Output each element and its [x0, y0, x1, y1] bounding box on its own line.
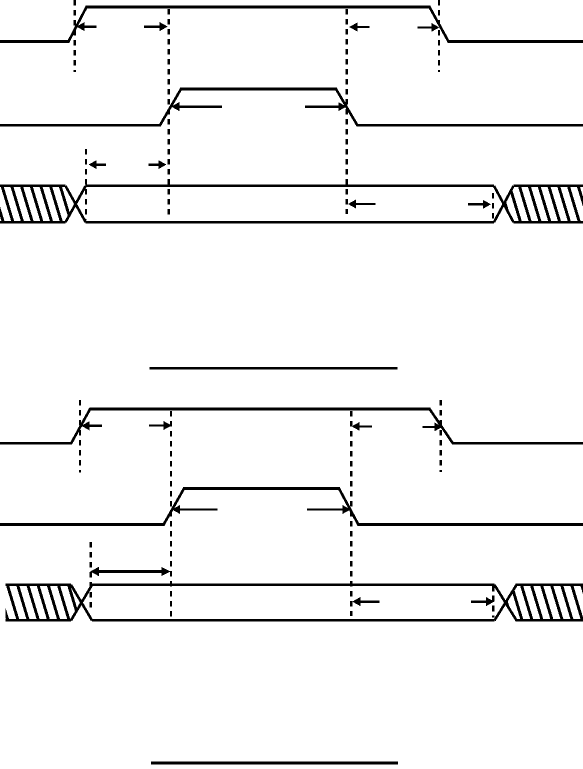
- arrow left toward L3, diagram 1 row 1: [349, 23, 369, 32]
- bus crossover right, diagram 1: [494, 186, 514, 222]
- bus valid-data segment, diagram 2: [92, 585, 495, 621]
- arrow left into W2 rising edge, diagram 2: [172, 505, 218, 514]
- arrow right toward bus-valid end, diagram 1: [468, 200, 491, 209]
- dashed guide line L2 (W2 rising edge), diagram 2: [170, 411, 172, 620]
- arrow right into W2 falling edge, diagram 2: [307, 505, 351, 514]
- dashed guide line L3 (W2 falling edge), diagram 1: [346, 9, 348, 214]
- arrow left toward L3, diagram 2 row 1: [352, 422, 372, 431]
- arrow right into W1 falling edge, diagram 2: [422, 422, 442, 431]
- waveform W1: top control signal, diagram 2: [0, 409, 583, 443]
- short dashed guide at bus-valid end, diagram 2: [492, 586, 494, 618]
- bus crossover left, diagram 1: [66, 186, 86, 222]
- short dashed guide at bus-valid end, diagram 1: [492, 193, 494, 219]
- arrow left toward L3 inside bus, diagram 1: [348, 200, 376, 209]
- dashed guide line L4 (W1 falling edge), diagram 2: [440, 400, 442, 472]
- waveform W1: top control signal, diagram 1: [0, 7, 583, 42]
- bus valid-data segment, diagram 1: [86, 186, 494, 222]
- bus crossover right, diagram 2: [495, 585, 517, 621]
- dashed guide line L4 (W1 falling edge), diagram 1: [438, 0, 440, 72]
- arrow right toward bus-valid end, diagram 2: [471, 597, 494, 606]
- short dashed guide at bus-valid start, diagram 1: [85, 149, 87, 220]
- arrow left into W1 rising edge, diagram 2: [81, 421, 102, 430]
- waveform W2: middle control signal, diagram 1: [0, 89, 583, 125]
- arrow right into W1 falling edge, diagram 1: [417, 23, 439, 32]
- bus crossover left, diagram 2: [71, 585, 92, 621]
- dashed guide line L2 (W2 rising edge), diagram 1: [168, 9, 170, 215]
- arrow left toward L3 inside bus, diagram 2: [352, 597, 379, 606]
- arrow left into W2 rising edge, diagram 1: [171, 102, 222, 111]
- arrow left toward bus-valid start, diagram 1: [89, 160, 106, 169]
- dashed guide line L1 (W1 rising edge), diagram 1: [74, 0, 76, 72]
- thick double-headed arrow above bus, diagram 2: [90, 567, 171, 576]
- waveform W2: middle control signal, diagram 2: [0, 489, 583, 525]
- short dashed guide at bus-valid start, diagram 2: [90, 542, 92, 612]
- dashed guide line L3 (W2 falling edge), diagram 2: [350, 411, 352, 616]
- bottom title underline rule: [151, 761, 398, 764]
- arrow right toward L2 above bus, diagram 1: [149, 160, 167, 169]
- arrow right toward L2, diagram 2 row 1: [149, 421, 172, 430]
- dashed guide line L1 (W1 rising edge), diagram 2: [79, 400, 81, 472]
- title underline rule, diagram 2: [150, 367, 398, 370]
- arrow right toward L2, diagram 1 row 1: [144, 22, 168, 31]
- arrow right into W2 falling edge, diagram 1: [305, 102, 346, 111]
- arrow left into W1 rising edge, diagram 1: [77, 22, 97, 31]
